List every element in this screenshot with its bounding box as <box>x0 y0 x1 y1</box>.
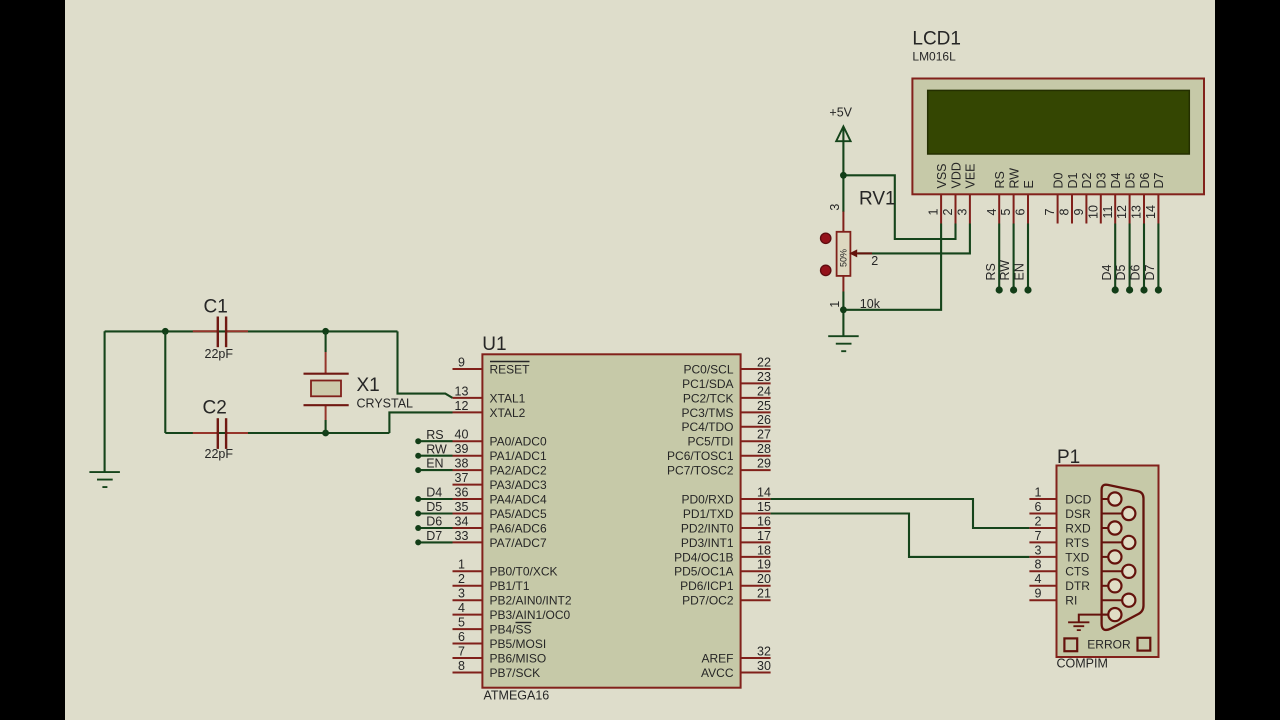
U1 pin 23 PC1/SDA <box>682 370 771 391</box>
svg-text:D5: D5 <box>426 500 442 514</box>
svg-text:22: 22 <box>757 355 771 369</box>
svg-text:24: 24 <box>757 384 771 398</box>
svg-text:LCD1: LCD1 <box>912 28 961 49</box>
node: +5V / VDD junction <box>840 172 847 179</box>
node: crystal bottom junction <box>322 430 329 437</box>
wire: C1 junction down to C2 <box>164 331 166 433</box>
svg-text:ATMEGA16: ATMEGA16 <box>484 689 550 703</box>
P1 pin 3 TXD <box>1029 543 1089 564</box>
node: RV1 bottom / VSS junction <box>840 306 847 313</box>
svg-text:D4: D4 <box>1100 264 1114 280</box>
RV1 pin 3 <box>828 204 842 211</box>
svg-text:C1: C1 <box>204 297 228 318</box>
LCD1 value LM016L <box>912 49 956 63</box>
wire: top net C1 right to XTAL1 <box>105 330 398 332</box>
RV1 pin 2 <box>871 254 878 268</box>
wire: crystal top lead <box>325 331 327 373</box>
svg-text:27: 27 <box>757 428 771 442</box>
svg-text:DCD: DCD <box>1065 492 1091 506</box>
svg-text:9: 9 <box>1035 587 1042 601</box>
svg-text:TXD: TXD <box>1065 550 1089 564</box>
LCD1 pin 14 D7 <box>1144 172 1166 223</box>
net label D5 wire at U1 <box>415 500 452 516</box>
wire: LCD VSS to GND rail <box>843 224 941 310</box>
svg-text:PA0/ADC0: PA0/ADC0 <box>490 435 547 449</box>
svg-text:10: 10 <box>1086 205 1100 219</box>
svg-text:7: 7 <box>1035 529 1042 543</box>
wire: XTAL1 net with jog <box>398 331 453 398</box>
LCD1 pin 13 D6 <box>1130 172 1152 223</box>
label U1 <box>482 334 506 355</box>
svg-text:PD2/INT0: PD2/INT0 <box>681 521 734 535</box>
wire: XTAL2 net <box>389 412 452 433</box>
svg-text:PD4/OC1B: PD4/OC1B <box>674 550 733 564</box>
U1 pin 1 PB0/T0/XCK <box>453 558 558 579</box>
wire: C2 horizontal net <box>165 432 389 434</box>
P1 pin 6 DSR <box>1029 500 1091 521</box>
U1 pin 9 RESET <box>453 355 531 376</box>
svg-text:PD0/RXD: PD0/RXD <box>681 492 733 506</box>
svg-text:D5: D5 <box>1123 172 1137 188</box>
svg-text:10k: 10k <box>860 297 881 311</box>
svg-text:D4: D4 <box>426 486 442 500</box>
wire: PD0/RXD to P1 RXD <box>771 499 1030 528</box>
svg-text:PA4/ADC4: PA4/ADC4 <box>490 492 547 506</box>
svg-text:PA7/ADC7: PA7/ADC7 <box>490 536 547 550</box>
wire: crystal bottom lead <box>325 405 327 433</box>
svg-text:RESET: RESET <box>490 362 531 376</box>
svg-text:PB6/MISO: PB6/MISO <box>490 651 547 665</box>
U1 pin 8 PB7/SCK <box>453 659 541 680</box>
svg-text:D5: D5 <box>1114 264 1128 280</box>
P1 DB9 hole 7 <box>1102 536 1136 549</box>
P1 pin 8 CTS <box>1029 558 1089 579</box>
U1 pin 30 AVCC <box>701 659 771 680</box>
label C2 <box>203 398 227 419</box>
svg-text:2: 2 <box>871 254 878 268</box>
RV1 pin 1 <box>828 301 842 308</box>
IC U1 ATMEGA16 body <box>482 354 740 687</box>
svg-text:RXD: RXD <box>1065 521 1091 535</box>
P1 pin 4 DTR <box>1029 572 1090 593</box>
svg-text:20: 20 <box>757 572 771 586</box>
svg-text:30: 30 <box>757 659 771 673</box>
svg-text:1: 1 <box>828 301 842 308</box>
P1 DB9 hole 6 <box>1102 507 1136 520</box>
U1 pin 15 PD1/TXD <box>683 500 771 521</box>
net label RS wire at LCD <box>984 224 1003 294</box>
svg-text:6: 6 <box>1035 500 1042 514</box>
U1 pin 26 PC4/TDO <box>681 413 771 434</box>
U1 pin 16 PD2/INT0 <box>681 514 771 535</box>
P1 ERROR label <box>1087 638 1131 652</box>
svg-text:17: 17 <box>757 529 771 543</box>
svg-text:EN: EN <box>426 457 443 471</box>
svg-text:PC4/TDO: PC4/TDO <box>681 420 733 434</box>
svg-text:AREF: AREF <box>701 651 733 665</box>
svg-text:PB0/T0/XCK: PB0/T0/XCK <box>490 565 558 579</box>
label RV1 <box>859 189 896 210</box>
label C1 <box>204 297 228 318</box>
P1 DB9 hole 1 <box>1102 492 1122 505</box>
svg-text:EN: EN <box>1013 263 1027 280</box>
svg-text:PB3/AIN1/OC0: PB3/AIN1/OC0 <box>490 608 571 622</box>
LCD1 pin 7 D0 <box>1043 172 1065 223</box>
P1 pin 2 RXD <box>1029 514 1091 535</box>
svg-text:XTAL2: XTAL2 <box>490 406 526 420</box>
svg-text:PC6/TOSC1: PC6/TOSC1 <box>667 449 734 463</box>
U1 pin 18 PD4/OC1B <box>674 543 771 564</box>
svg-text:RW: RW <box>1007 168 1021 189</box>
svg-text:PD6/ICP1: PD6/ICP1 <box>680 579 734 593</box>
svg-text:15: 15 <box>757 500 771 514</box>
LCD1 pin 2 VDD <box>941 162 963 223</box>
U1 pin 24 PC2/TCK <box>683 384 771 405</box>
U1 pin 33 PA7/ADC7 <box>453 529 547 550</box>
U1 pin 37 PA3/ADC3 <box>453 471 547 492</box>
svg-text:RW: RW <box>998 260 1012 281</box>
RV1 pin state indicator (bottom) <box>821 265 831 275</box>
svg-text:50%: 50% <box>839 249 849 267</box>
U1 pin 27 PC5/TDI <box>687 428 771 449</box>
svg-text:PA2/ADC2: PA2/ADC2 <box>490 464 547 478</box>
svg-text:PC0/SCL: PC0/SCL <box>683 362 733 376</box>
svg-text:D1: D1 <box>1066 172 1080 188</box>
net label D6 wire at U1 <box>415 515 452 531</box>
svg-text:RI: RI <box>1065 594 1077 608</box>
U1 pin 34 PA6/ADC6 <box>453 514 547 535</box>
svg-text:VEE: VEE <box>964 163 978 188</box>
svg-text:VSS: VSS <box>935 163 949 188</box>
svg-text:36: 36 <box>455 485 469 499</box>
svg-text:2: 2 <box>1035 514 1042 528</box>
net label EN wire at LCD <box>1013 224 1032 294</box>
svg-text:35: 35 <box>455 500 469 514</box>
svg-text:39: 39 <box>455 442 469 456</box>
svg-text:5: 5 <box>999 208 1013 215</box>
svg-text:34: 34 <box>455 514 469 528</box>
svg-text:D6: D6 <box>426 515 442 529</box>
svg-text:3: 3 <box>1035 543 1042 557</box>
svg-text:9: 9 <box>1072 208 1086 215</box>
svg-text:XTAL1: XTAL1 <box>490 391 526 405</box>
svg-text:26: 26 <box>757 413 771 427</box>
U1 pin 14 PD0/RXD <box>681 485 771 506</box>
net label D5 wire at LCD <box>1114 224 1133 294</box>
svg-text:3: 3 <box>956 208 970 215</box>
svg-text:RV1: RV1 <box>859 189 896 210</box>
svg-text:X1: X1 <box>357 375 380 396</box>
LCD1 pin 1 VSS <box>927 163 949 223</box>
RV1 value 10k <box>860 297 881 311</box>
svg-text:D3: D3 <box>1095 172 1109 188</box>
svg-text:ERROR: ERROR <box>1087 638 1131 652</box>
U1 pin 21 PD7/OC2 <box>682 587 771 608</box>
C1 value 22pF <box>205 347 234 361</box>
svg-text:40: 40 <box>455 428 469 442</box>
svg-text:COMPIM: COMPIM <box>1057 657 1108 671</box>
svg-text:PC3/TMS: PC3/TMS <box>681 406 733 420</box>
U1 pin 2 PB1/T1 <box>453 572 530 593</box>
svg-text:RW: RW <box>426 442 447 456</box>
svg-text:PC2/TCK: PC2/TCK <box>683 391 734 405</box>
svg-text:6: 6 <box>458 630 465 644</box>
wire: RV1 bottom to GND <box>842 292 844 336</box>
svg-text:PD3/INT1: PD3/INT1 <box>681 536 734 550</box>
ground (inside P1, DB9 shield) <box>1068 615 1108 631</box>
svg-text:C2: C2 <box>203 398 227 419</box>
U1 pin 6 PB5/MOSI <box>453 630 547 651</box>
P1 DB9 shell <box>1102 485 1144 630</box>
svg-text:16: 16 <box>757 514 771 528</box>
label X1 <box>357 375 380 396</box>
U1 pin 19 PD5/OC1A <box>674 558 771 579</box>
svg-text:+5V: +5V <box>829 105 852 119</box>
net label D7 wire at LCD <box>1143 224 1162 294</box>
capacitor C2 <box>193 418 248 449</box>
LCD1 pin 8 D1 <box>1058 172 1080 223</box>
svg-text:4: 4 <box>458 601 465 615</box>
svg-text:19: 19 <box>757 558 771 572</box>
svg-text:9: 9 <box>458 355 465 369</box>
U1 pin 22 PC0/SCL <box>683 355 771 376</box>
svg-text:E: E <box>1022 180 1036 188</box>
U1 pin 29 PC7/TOSC2 <box>667 457 771 478</box>
svg-text:PD7/OC2: PD7/OC2 <box>682 594 734 608</box>
svg-text:22pF: 22pF <box>205 447 234 461</box>
svg-text:7: 7 <box>458 644 465 658</box>
svg-text:PC7/TOSC2: PC7/TOSC2 <box>667 464 734 478</box>
svg-text:D7: D7 <box>1152 172 1166 188</box>
svg-text:PC5/TDI: PC5/TDI <box>687 435 733 449</box>
svg-text:DTR: DTR <box>1065 579 1090 593</box>
U1 pin 25 PC3/TMS <box>681 399 771 420</box>
LCD1 pin 10 D3 <box>1086 172 1108 223</box>
node: C1 left junction <box>162 328 169 335</box>
svg-text:AVCC: AVCC <box>701 666 734 680</box>
svg-text:D7: D7 <box>1143 264 1157 280</box>
P1 pin 9 RI <box>1029 587 1077 608</box>
svg-text:6: 6 <box>1014 208 1028 215</box>
svg-text:PB1/T1: PB1/T1 <box>490 579 530 593</box>
U1 pin 12 XTAL2 <box>453 399 526 420</box>
svg-text:28: 28 <box>757 442 771 456</box>
svg-text:33: 33 <box>455 529 469 543</box>
U1 pin 40 PA0/ADC0 <box>453 428 547 449</box>
svg-text:14: 14 <box>1144 205 1158 219</box>
svg-text:8: 8 <box>1058 208 1072 215</box>
LCD1 pin 6 E <box>1014 180 1036 223</box>
P1 pin 7 RTS <box>1029 529 1089 550</box>
svg-text:4: 4 <box>985 208 999 215</box>
svg-text:3: 3 <box>828 204 842 211</box>
svg-text:11: 11 <box>1101 205 1115 218</box>
svg-text:37: 37 <box>455 471 469 485</box>
svg-text:CRYSTAL: CRYSTAL <box>357 397 414 411</box>
svg-text:7: 7 <box>1043 208 1057 215</box>
svg-text:PB5/MOSI: PB5/MOSI <box>490 637 547 651</box>
svg-text:PA5/ADC5: PA5/ADC5 <box>490 507 547 521</box>
C2 value 22pF <box>205 447 234 461</box>
svg-text:8: 8 <box>458 659 465 673</box>
LCD1 pin 9 D2 <box>1072 172 1094 223</box>
P1 value COMPIM <box>1057 657 1108 671</box>
svg-text:PB2/AIN0/INT2: PB2/AIN0/INT2 <box>490 594 572 608</box>
svg-text:1: 1 <box>927 208 941 215</box>
U1 pin 32 AREF <box>701 644 771 665</box>
U1 pin 39 PA1/ADC1 <box>453 442 547 463</box>
crystal X1 <box>304 374 349 406</box>
U1 pin 7 PB6/MISO <box>453 644 547 665</box>
wire: PD1/TXD to P1 TXD <box>771 514 1030 557</box>
svg-text:13: 13 <box>1130 205 1144 219</box>
net label RS wire at U1 <box>415 428 452 444</box>
P1 DB9 hole 4 <box>1102 579 1122 592</box>
svg-text:5: 5 <box>458 616 465 630</box>
potentiometer RV1 <box>837 212 872 292</box>
svg-text:D6: D6 <box>1129 264 1143 280</box>
svg-text:1: 1 <box>458 558 465 572</box>
U1 value ATMEGA16 <box>484 689 550 703</box>
svg-text:RTS: RTS <box>1065 536 1089 550</box>
svg-text:VDD: VDD <box>949 162 963 188</box>
svg-text:RS: RS <box>426 428 443 442</box>
net label RW wire at U1 <box>415 442 452 458</box>
svg-text:29: 29 <box>757 457 771 471</box>
connector P1 body (COMPIM) <box>1057 466 1159 658</box>
svg-text:25: 25 <box>757 399 771 413</box>
svg-text:PD5/OC1A: PD5/OC1A <box>674 565 733 579</box>
svg-text:13: 13 <box>455 384 469 398</box>
svg-text:2: 2 <box>941 208 955 215</box>
svg-text:18: 18 <box>757 543 771 557</box>
U1 pin 5 PB4/SS <box>453 616 532 637</box>
P1 pin 1 DCD <box>1029 485 1091 506</box>
net label EN wire at U1 <box>415 457 452 473</box>
svg-text:LM016L: LM016L <box>912 49 956 63</box>
wire: LCD VEE to RV1 wiper <box>858 224 970 254</box>
svg-text:2: 2 <box>458 572 465 586</box>
net label D7 wire at U1 <box>415 529 452 545</box>
U1 pin 38 PA2/ADC2 <box>453 457 547 478</box>
svg-text:D2: D2 <box>1080 172 1094 188</box>
svg-text:PA3/ADC3: PA3/ADC3 <box>490 478 547 492</box>
net label D4 wire at U1 <box>415 486 452 502</box>
wire: LCD VDD to +5V <box>843 175 955 239</box>
P1 DB9 hole 5 <box>1102 608 1122 621</box>
svg-text:21: 21 <box>757 587 771 601</box>
svg-text:32: 32 <box>757 644 771 658</box>
svg-text:CTS: CTS <box>1065 565 1089 579</box>
net label RW wire at LCD <box>998 224 1017 294</box>
ground (below RV1) <box>828 336 859 351</box>
ground (left) <box>89 472 120 487</box>
svg-text:D6: D6 <box>1138 172 1152 188</box>
svg-text:PB7/SCK: PB7/SCK <box>490 666 541 680</box>
U1 pin 17 PD3/INT1 <box>681 529 771 550</box>
LCD1 pin 12 D5 <box>1115 172 1137 223</box>
svg-text:PA6/ADC6: PA6/ADC6 <box>490 521 547 535</box>
LCD1 pin 11 D4 <box>1101 172 1123 223</box>
P1 ERROR indicator right square <box>1138 638 1151 651</box>
P1 DB9 hole 3 <box>1102 550 1122 563</box>
svg-text:PC1/SDA: PC1/SDA <box>682 377 733 391</box>
svg-text:1: 1 <box>1035 485 1042 499</box>
svg-text:PD1/TXD: PD1/TXD <box>683 507 734 521</box>
svg-text:DSR: DSR <box>1065 507 1091 521</box>
label P1 <box>1057 447 1080 468</box>
svg-text:12: 12 <box>455 399 469 413</box>
U1 pin 4 PB3/AIN1/OC0 <box>453 601 571 622</box>
svg-text:PA1/ADC1: PA1/ADC1 <box>490 449 547 463</box>
svg-text:4: 4 <box>1035 572 1042 586</box>
node: C1 right / crystal top junction <box>322 328 329 335</box>
U1 pin 35 PA5/ADC5 <box>453 500 547 521</box>
LCD1 pin 5 RW <box>999 168 1021 224</box>
X1 value CRYSTAL <box>357 397 414 411</box>
P1 DB9 hole 9 <box>1102 594 1136 607</box>
LCD1 screen <box>928 90 1190 154</box>
U1 pin 36 PA4/ADC4 <box>453 485 547 506</box>
U1 pin 28 PC6/TOSC1 <box>667 442 771 463</box>
LCD1 pin 3 VEE <box>956 163 978 223</box>
svg-text:22pF: 22pF <box>205 347 234 361</box>
svg-text:23: 23 <box>757 370 771 384</box>
svg-text:RS: RS <box>984 263 998 280</box>
svg-text:D7: D7 <box>426 529 442 543</box>
svg-text:RS: RS <box>993 171 1007 188</box>
net label D6 wire at LCD <box>1129 224 1148 294</box>
power +5V <box>829 105 852 212</box>
svg-text:8: 8 <box>1035 558 1042 572</box>
P1 ERROR indicator left square <box>1064 638 1077 651</box>
U1 pin 3 PB2/AIN0/INT2 <box>453 587 572 608</box>
RV1 pin state indicator (top) <box>821 233 831 243</box>
svg-text:PB4/SS: PB4/SS <box>490 623 532 637</box>
P1 DB9 hole 8 <box>1102 565 1136 578</box>
capacitor C1 <box>193 317 248 348</box>
svg-text:3: 3 <box>458 587 465 601</box>
LCD1 body <box>912 79 1204 195</box>
svg-text:38: 38 <box>455 457 469 471</box>
label LCD1 <box>912 28 961 49</box>
svg-text:14: 14 <box>757 485 771 499</box>
wire: GND rail to C1/C2 left vertical <box>104 331 106 471</box>
svg-text:D0: D0 <box>1051 172 1065 188</box>
U1 pin 20 PD6/ICP1 <box>680 572 771 593</box>
P1 DB9 hole 2 <box>1102 521 1122 534</box>
svg-text:D4: D4 <box>1109 172 1123 188</box>
U1 pin 13 XTAL1 <box>453 384 526 405</box>
svg-text:12: 12 <box>1115 205 1129 219</box>
net label D4 wire at LCD <box>1100 224 1119 294</box>
svg-text:U1: U1 <box>482 334 506 355</box>
LCD1 pin 4 RS <box>985 171 1007 223</box>
